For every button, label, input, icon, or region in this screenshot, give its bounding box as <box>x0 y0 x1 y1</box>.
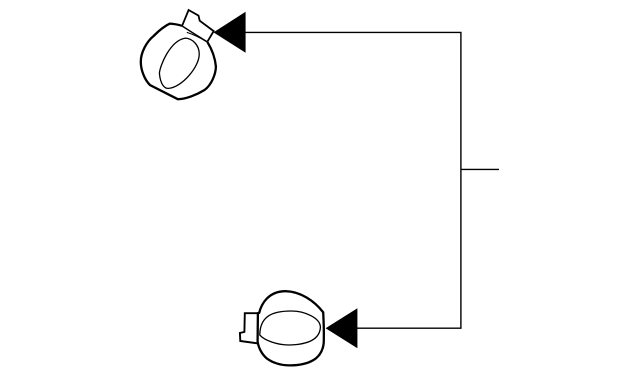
clamp C2 outer body <box>258 291 324 365</box>
arrow to clamp C2 <box>326 308 358 348</box>
clamp C2 inner opening <box>260 311 321 345</box>
leader tick stub <box>461 168 499 170</box>
arrow to clamp C1 <box>214 12 246 53</box>
clamp C1 inner opening <box>159 38 199 88</box>
wire from C1 arrow to C2 arrow <box>245 32 461 328</box>
clamp C1 band edge line <box>187 32 207 42</box>
clamp C1 body edge under tab <box>182 26 207 42</box>
clamp C1 outer body <box>141 24 216 100</box>
clamp C2 screw tab <box>240 313 258 343</box>
clamp C1 screw tab <box>182 10 214 42</box>
